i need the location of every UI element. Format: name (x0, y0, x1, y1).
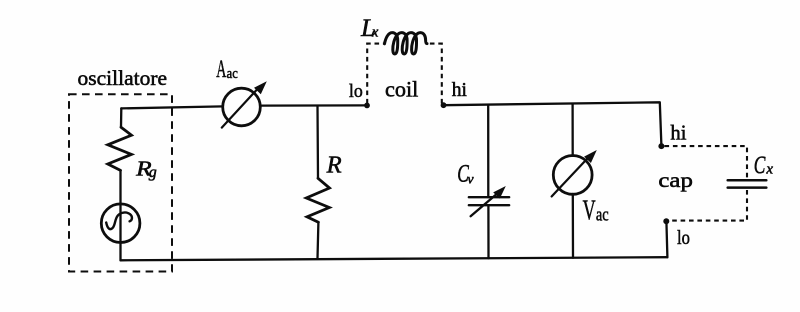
svg-text:lo: lo (677, 227, 690, 249)
svg-text:g: g (149, 164, 157, 181)
svg-text:lo: lo (349, 81, 363, 102)
svg-text:hi: hi (452, 80, 468, 101)
svg-text:ac: ac (596, 204, 609, 225)
svg-text:v: v (467, 173, 474, 188)
svg-text:cap: cap (658, 168, 693, 192)
svg-text:oscillatore: oscillatore (78, 66, 168, 90)
svg-text:R: R (326, 152, 342, 179)
svg-text:A: A (216, 54, 226, 83)
svg-text:V: V (583, 195, 596, 227)
svg-text:coil: coil (385, 77, 418, 102)
svg-text:ac: ac (227, 66, 238, 82)
svg-text:x: x (765, 162, 773, 178)
svg-text:C: C (754, 151, 766, 179)
svg-text:hi: hi (670, 122, 686, 144)
svg-text:x: x (371, 25, 379, 41)
